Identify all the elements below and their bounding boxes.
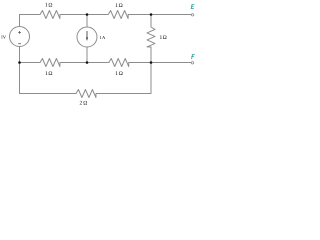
resistor R4 1ohm middle-left	[40, 59, 60, 67]
terminal F open circle	[191, 62, 193, 64]
node label E	[191, 5, 194, 9]
wire R1 to node above current source	[60, 14, 108, 16]
node dot middle below current source	[86, 61, 89, 64]
svg-text:1A: 1A	[100, 35, 107, 40]
resistor R6 2ohm bottom	[76, 90, 96, 98]
voltage source V1 circle	[10, 27, 30, 47]
resistor R5 1ohm middle-right	[109, 59, 129, 67]
svg-text:2Ω: 2Ω	[80, 101, 88, 107]
voltage source plus sign	[18, 31, 21, 34]
wire right resistor upper lead	[150, 15, 152, 28]
svg-text:1Ω: 1Ω	[45, 3, 52, 9]
node dot middle below resistor R3	[150, 61, 153, 64]
resistor R3 1ohm vertical	[147, 27, 155, 47]
resistor R1 1ohm top-left	[40, 11, 60, 19]
terminal E open circle	[191, 14, 193, 16]
resistor R2 1ohm top-right	[108, 11, 128, 19]
wire top-left to R1	[20, 14, 41, 16]
node label F	[192, 55, 195, 59]
wire left vertical below source V1	[19, 47, 21, 94]
wire current source lower lead	[86, 47, 88, 63]
wire bottom-left	[20, 93, 77, 95]
svg-text:1Ω: 1Ω	[115, 3, 122, 9]
voltage source minus sign	[18, 43, 21, 45]
node dot top above current source	[86, 13, 89, 16]
current source I1 circle	[77, 27, 97, 47]
node dot top above resistor R3	[150, 13, 153, 16]
wire current source upper lead	[86, 15, 88, 28]
wire middle to terminal F	[129, 62, 191, 64]
current source arrow	[86, 31, 88, 38]
node dot middle left	[18, 61, 21, 64]
svg-text:1Ω: 1Ω	[45, 71, 52, 77]
svg-text:1Ω: 1Ω	[160, 35, 167, 41]
wire right resistor lower lead	[150, 47, 152, 63]
wire middle centre	[60, 62, 109, 64]
wire bottom-right	[96, 93, 151, 95]
wire middle-left	[20, 62, 41, 64]
wire right lower vertical	[150, 63, 152, 94]
svg-text:1Ω: 1Ω	[115, 71, 123, 77]
svg-text:1V: 1V	[1, 34, 7, 39]
wire R2 to node E branch	[128, 14, 191, 16]
wire left vertical above source V1	[19, 15, 21, 27]
